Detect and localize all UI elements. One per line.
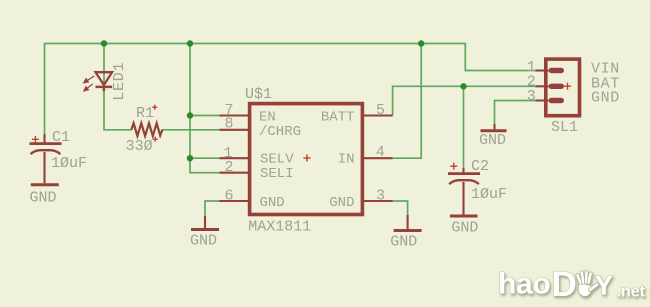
- wire pin5 BATT to SL1 pin2: [393, 86, 536, 115]
- svg-text:GND: GND: [451, 220, 478, 237]
- wire SL1 pin3 to ground: [495, 101, 537, 125]
- svg-text:4: 4: [376, 144, 385, 161]
- LED1 emission arrow upper: [84, 76, 95, 91]
- R1 name origin cross: [152, 105, 157, 110]
- svg-text:1ØuF: 1ØuF: [51, 155, 87, 172]
- svg-text:IN: IN: [338, 151, 355, 167]
- svg-text:R1: R1: [136, 105, 154, 122]
- SL1 pin 1 pad: [549, 68, 564, 73]
- pin 2 stub: [219, 172, 248, 174]
- wire EN/SELV/SELI riser: [190, 44, 220, 173]
- wire pin4 IN riser to rail: [393, 44, 422, 159]
- op IC pins dark red stubs: [219, 71, 548, 202]
- R1 value origin cross: [153, 137, 158, 142]
- ground symbol at pin3: [394, 215, 422, 231]
- svg-text:C1: C1: [52, 129, 70, 146]
- wire branch to pin7 EN: [190, 115, 220, 117]
- svg-text:BATT: BATT: [321, 110, 355, 126]
- svg-text:D: D: [552, 265, 577, 304]
- svg-text:hao: hao: [498, 268, 550, 301]
- junction riser pin7: [187, 112, 193, 118]
- svg-text:.net: .net: [617, 284, 646, 301]
- SL1 pin 3 pad: [549, 98, 564, 103]
- wire R1 to pin8 /CHRG: [162, 129, 220, 131]
- svg-text:C2: C2: [471, 158, 489, 175]
- junction on rail at riser: [187, 40, 193, 46]
- LED1 emission arrow lower: [86, 84, 93, 89]
- capacitor C1: [30, 134, 62, 183]
- svg-text:GND: GND: [30, 190, 57, 207]
- connector SL1 box: [546, 59, 580, 116]
- svg-text:1ØuF: 1ØuF: [471, 186, 507, 203]
- svg-text:LED1: LED1: [111, 62, 128, 101]
- svg-text:MAX1811: MAX1811: [248, 219, 311, 236]
- wire pin3 GND to ground: [393, 201, 408, 216]
- capacitor C2: [448, 168, 480, 215]
- svg-text:GND: GND: [329, 195, 354, 211]
- wire VIN rail: left drop, top rail, right drop to SL1 pin1: [45, 44, 537, 141]
- svg-text:8: 8: [224, 116, 233, 133]
- junction on rail at LED: [101, 40, 107, 46]
- svg-text:SELI: SELI: [260, 166, 294, 182]
- IC name origin cross: [303, 154, 310, 161]
- svg-text:GND: GND: [190, 233, 217, 250]
- hand icon: [575, 270, 599, 296]
- SL1 pin3 stub: [536, 99, 549, 101]
- svg-text:GND: GND: [479, 132, 506, 149]
- ground symbol at SL1 pin3: [481, 124, 507, 131]
- svg-text:6: 6: [224, 188, 233, 205]
- svg-text:GND: GND: [390, 234, 417, 251]
- pin 4 stub: [364, 157, 393, 159]
- junction BAT wire at C2: [460, 83, 466, 89]
- IC U$1 MAX1811 box: [250, 104, 363, 215]
- svg-text:U$1: U$1: [245, 86, 272, 103]
- svg-text:GND: GND: [260, 195, 285, 211]
- wire C2 drop: [463, 86, 465, 168]
- pin 7 stub: [219, 114, 248, 116]
- pin 3 stub: [364, 200, 393, 202]
- wire LED drop from rail to resistor: [104, 44, 132, 130]
- LED LED1: [96, 72, 113, 91]
- SL1 pin 2 pad: [549, 84, 564, 89]
- wire branch to pin1 SELV: [190, 157, 220, 159]
- svg-text:33Ø: 33Ø: [126, 138, 153, 155]
- svg-text:3: 3: [376, 188, 385, 205]
- C2 polarity +: [450, 163, 457, 170]
- svg-text:SL1: SL1: [551, 119, 578, 136]
- SL1 polarity +: [564, 83, 571, 90]
- pin 1 stub: [219, 157, 248, 159]
- SL1 pin1 stub: [536, 69, 549, 71]
- svg-text:SELV: SELV: [260, 151, 294, 167]
- svg-text:GND: GND: [591, 90, 620, 107]
- pin 8 stub: [219, 129, 248, 131]
- svg-text:/CHRG: /CHRG: [259, 124, 301, 140]
- junction on rail at IN riser: [418, 40, 424, 46]
- resistor R1 zigzag: [131, 123, 162, 136]
- C1 polarity +: [32, 136, 39, 143]
- svg-text:3: 3: [527, 88, 536, 105]
- ground bar under C2: [450, 215, 478, 218]
- wire pin6 GND to ground: [205, 201, 220, 217]
- junction riser pin1: [187, 155, 193, 161]
- watermark logo haoDIY.net: [498, 265, 646, 304]
- svg-text:2: 2: [224, 159, 233, 176]
- pin 5 stub: [364, 114, 393, 116]
- ground bar under C1: [31, 183, 59, 186]
- ground symbol at pin6: [191, 216, 219, 230]
- pin 6 stub: [219, 200, 248, 202]
- svg-text:5: 5: [376, 102, 385, 119]
- SL1 pin2 stub: [536, 85, 549, 87]
